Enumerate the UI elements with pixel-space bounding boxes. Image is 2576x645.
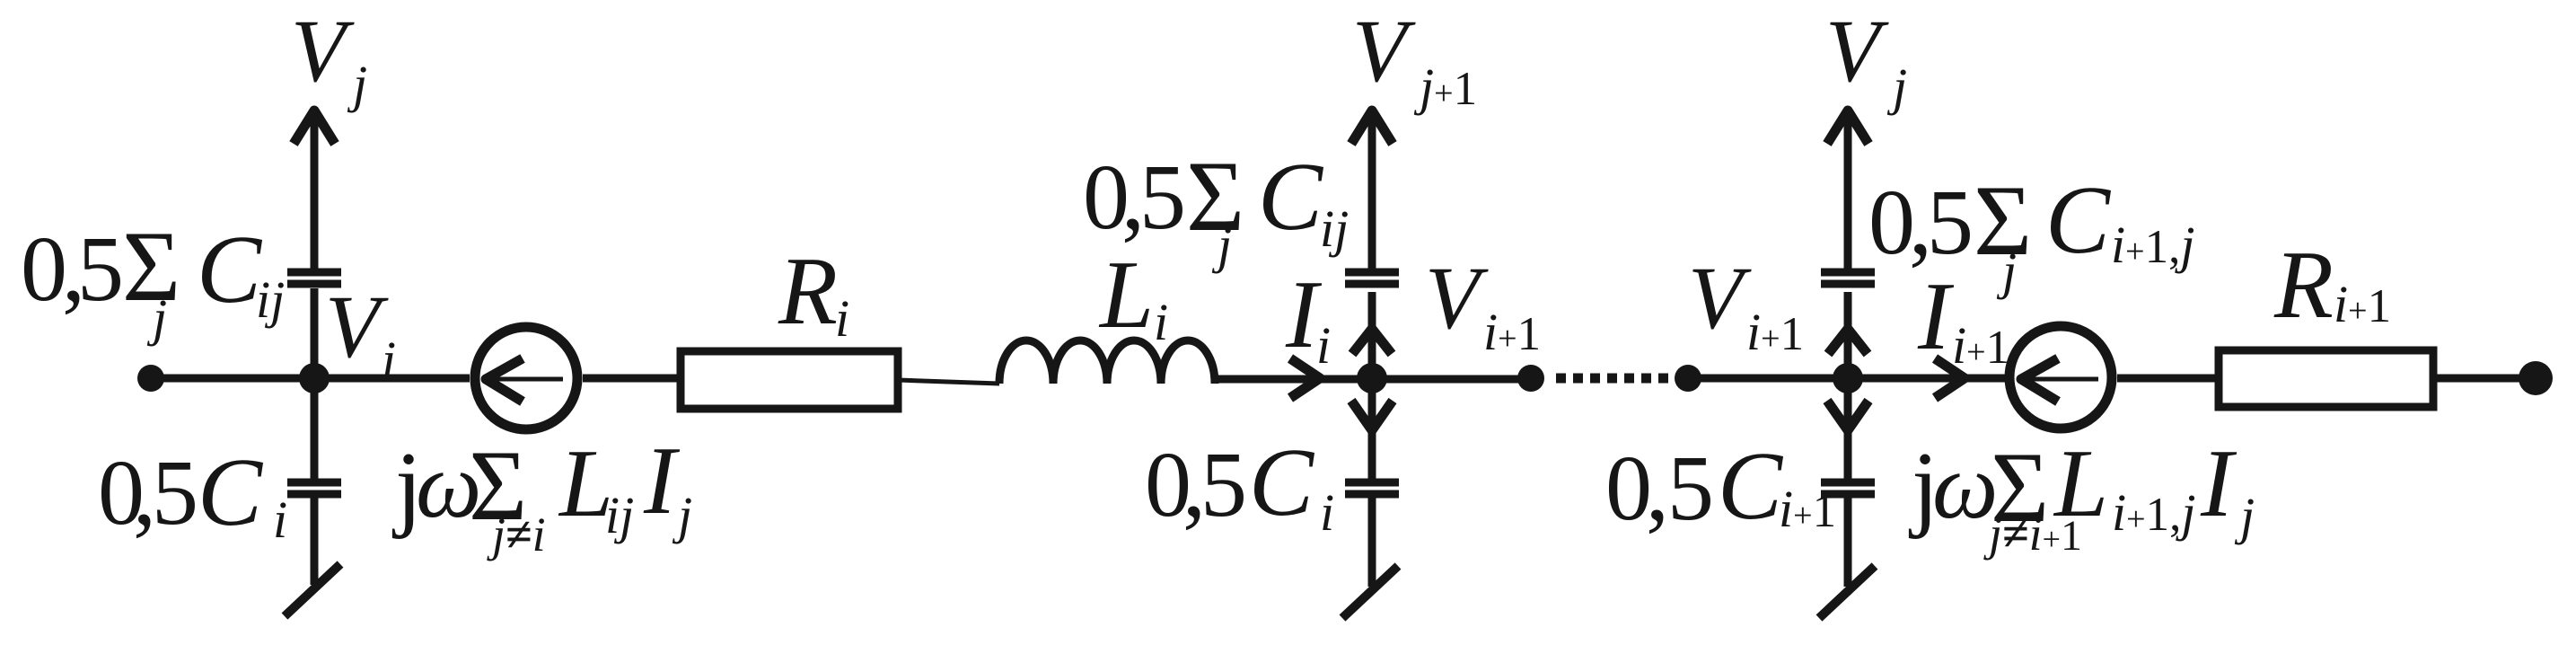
svg-text:j: j bbox=[1886, 57, 1907, 116]
svg-text:j≠i: j≠i bbox=[487, 508, 546, 561]
svg-text:5: 5 bbox=[1927, 171, 1974, 274]
svg-text:5: 5 bbox=[77, 217, 124, 321]
svg-text:i: i bbox=[835, 289, 849, 348]
svg-text:j: j bbox=[347, 55, 367, 113]
svg-text:ij: ij bbox=[605, 486, 634, 544]
svg-text:C: C bbox=[1258, 144, 1324, 251]
svg-text:R: R bbox=[778, 238, 838, 345]
svg-text:L: L bbox=[1098, 242, 1154, 349]
svg-text:C: C bbox=[198, 439, 264, 546]
svg-text:i+1: i+1 bbox=[1952, 316, 2009, 375]
svg-text:C: C bbox=[197, 216, 263, 323]
svg-text:,: , bbox=[1646, 437, 1669, 540]
svg-text:Σ: Σ bbox=[122, 211, 180, 322]
svg-text:5: 5 bbox=[1200, 433, 1247, 536]
svg-text:5: 5 bbox=[152, 441, 198, 544]
svg-text:I: I bbox=[1917, 263, 1955, 370]
svg-text:i: i bbox=[273, 490, 287, 549]
svg-text:V: V bbox=[1825, 1, 1889, 101]
svg-text:I: I bbox=[643, 428, 681, 535]
svg-text:5: 5 bbox=[1139, 146, 1186, 249]
svg-text:0: 0 bbox=[21, 217, 67, 321]
svg-text:5: 5 bbox=[1667, 437, 1714, 540]
svg-text:V: V bbox=[1352, 1, 1416, 101]
svg-text:V: V bbox=[1425, 248, 1489, 348]
svg-text:ij: ij bbox=[1320, 199, 1349, 258]
svg-text:R: R bbox=[2273, 232, 2334, 339]
svg-text:Σ: Σ bbox=[1186, 141, 1244, 252]
svg-text:i: i bbox=[382, 331, 396, 389]
svg-text:V: V bbox=[1688, 248, 1752, 348]
svg-text:C: C bbox=[2045, 167, 2112, 274]
svg-text:ij: ij bbox=[256, 270, 285, 329]
svg-text:i+1: i+1 bbox=[2334, 275, 2391, 333]
svg-text:C: C bbox=[1249, 429, 1315, 536]
svg-text:j≠i+1: j≠i+1 bbox=[1983, 507, 2082, 561]
svg-text:C: C bbox=[1718, 433, 1784, 540]
svg-text:i+1: i+1 bbox=[1779, 480, 1836, 538]
svg-text:V: V bbox=[325, 277, 389, 376]
svg-text:i+1: i+1 bbox=[1483, 303, 1541, 361]
svg-text:I: I bbox=[2200, 430, 2238, 537]
svg-text:i: i bbox=[1316, 316, 1331, 375]
svg-text:i+1,j: i+1,j bbox=[2111, 216, 2194, 274]
svg-text:j+1: j+1 bbox=[1413, 57, 1477, 116]
svg-text:j: j bbox=[2234, 487, 2255, 545]
svg-text:i: i bbox=[1154, 293, 1168, 351]
svg-text:i+1: i+1 bbox=[1746, 303, 1804, 361]
svg-text:i+1,j: i+1,j bbox=[2112, 483, 2195, 542]
svg-text:V: V bbox=[291, 1, 355, 101]
svg-text:i: i bbox=[1320, 483, 1334, 542]
